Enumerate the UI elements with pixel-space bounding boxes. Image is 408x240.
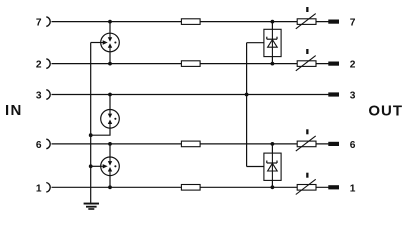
svg-text:2: 2 xyxy=(350,60,356,71)
svg-text:7: 7 xyxy=(350,18,356,29)
svg-text:OUT: OUT xyxy=(368,103,403,120)
svg-text:3: 3 xyxy=(36,91,42,102)
svg-text:3: 3 xyxy=(350,91,356,102)
svg-text:1: 1 xyxy=(36,183,42,194)
svg-text:2: 2 xyxy=(36,60,42,71)
svg-text:1: 1 xyxy=(350,183,356,194)
svg-text:IN: IN xyxy=(5,102,23,119)
svg-text:7: 7 xyxy=(36,18,42,29)
svg-text:6: 6 xyxy=(36,140,42,151)
svg-text:6: 6 xyxy=(350,140,356,151)
